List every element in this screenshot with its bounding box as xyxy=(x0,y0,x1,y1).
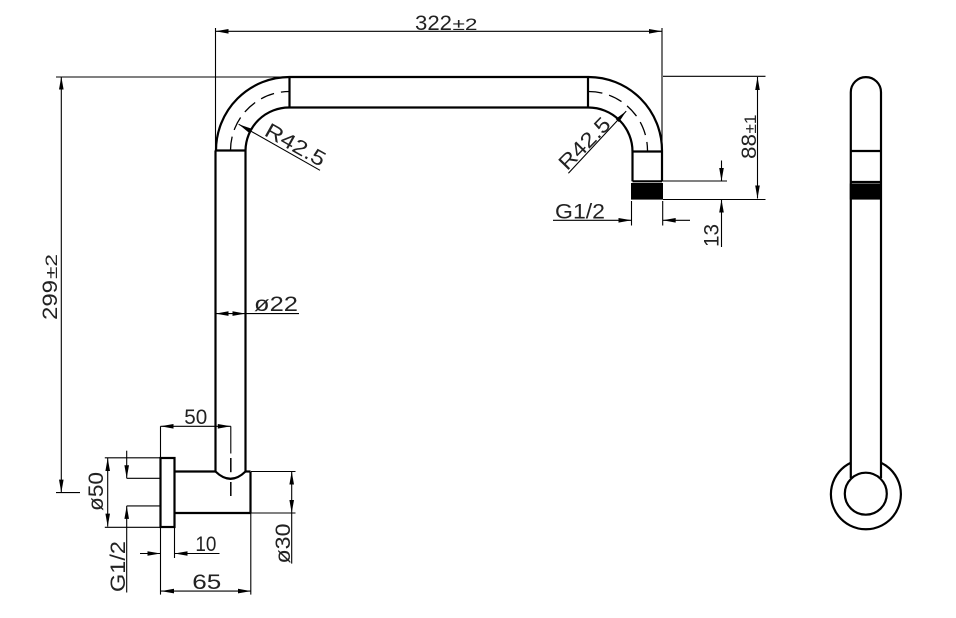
dim 13 upper segment xyxy=(721,161,723,182)
arrow 299 bottom xyxy=(59,480,64,493)
left elbow outer arc xyxy=(216,77,290,151)
arrow G12 right pointing right xyxy=(619,218,632,223)
svg-text:50: 50 xyxy=(184,406,207,429)
svg-text:ø50: ø50 xyxy=(85,472,108,511)
right elbow inner arc xyxy=(589,108,633,152)
right elbow outer arc xyxy=(589,77,663,151)
left elbow inner arc xyxy=(246,107,290,150)
arrow o30 down xyxy=(289,500,294,513)
arrow o50 top xyxy=(105,458,110,471)
dashed centerline arcs in elbows xyxy=(231,92,648,151)
ext line flange right edge down xyxy=(174,527,176,558)
body top edge right part xyxy=(246,470,251,472)
side thread top seam xyxy=(851,181,881,183)
wall flange rectangle xyxy=(161,458,175,527)
arrow 88 top xyxy=(755,77,760,90)
body bottom edge xyxy=(175,512,251,514)
G1/2 right second arrow tail xyxy=(663,219,690,221)
svg-text:322: 322 xyxy=(415,12,452,35)
arrow o50 bottom xyxy=(105,514,110,527)
ext line G1/2 left bottom xyxy=(127,505,161,507)
ext line 13 top xyxy=(662,180,727,182)
dim 322 line xyxy=(216,30,663,32)
arrow 13 down xyxy=(719,168,724,181)
left elbow horizontal seam xyxy=(216,149,246,151)
dim 10 right tail xyxy=(175,553,220,555)
svg-text:65: 65 xyxy=(192,571,221,594)
ext line o30 top xyxy=(251,471,296,473)
centerline dash 2 xyxy=(230,482,232,496)
arrow G12 left down xyxy=(124,465,129,478)
arrow 65 right xyxy=(238,589,251,594)
side flange outer circle (clipped at tube) xyxy=(831,463,901,530)
right elbow vertical seam xyxy=(587,77,589,108)
ext line 88 bottom / thread bottom extension xyxy=(663,199,766,201)
svg-text:G1/2: G1/2 xyxy=(107,541,130,592)
arrow o22 right xyxy=(233,311,246,316)
dim 88 line xyxy=(757,77,759,199)
left vertical pipe right edge xyxy=(244,151,246,472)
pipe top straight section top edge xyxy=(290,76,589,78)
pipe top straight section bottom edge xyxy=(290,106,589,108)
dim o22 line with leader xyxy=(216,313,300,315)
dim 65 line xyxy=(161,590,251,592)
svg-text:±1: ±1 xyxy=(741,115,760,134)
right elbow centerline arc xyxy=(589,92,648,151)
arrow o30 up xyxy=(289,472,294,485)
side tube seam xyxy=(851,150,881,152)
arrow G12 left up xyxy=(124,506,129,519)
right elbow horizontal seam xyxy=(633,150,663,152)
centerline dash 1 xyxy=(230,458,232,472)
front view thread (solid black) xyxy=(631,183,663,200)
side view thread (solid black) xyxy=(850,184,882,200)
arrow 322 right xyxy=(649,29,662,34)
ext line 322 left / pipe left edge extension xyxy=(215,28,217,151)
ext line bottom (299) xyxy=(56,492,80,494)
arrow 10 pointing right xyxy=(148,551,161,556)
dim o30 line xyxy=(291,472,293,564)
R42.5 left leader xyxy=(239,124,320,170)
svg-text:88: 88 xyxy=(738,134,761,159)
arrow 13 up xyxy=(719,200,724,213)
ext line 322 right going down to thread xyxy=(661,28,663,151)
side flange inner circle xyxy=(845,473,887,515)
ext line 65 right / body right edge down xyxy=(250,513,252,595)
arrow 65 left xyxy=(161,589,174,594)
arrow G12 right pointing left xyxy=(663,218,676,223)
svg-text:299: 299 xyxy=(39,280,62,320)
svg-text:10: 10 xyxy=(195,533,216,556)
ext line below thread right xyxy=(662,201,664,226)
pipe-body junction dip curve xyxy=(216,472,246,479)
ext line o50 top xyxy=(105,457,161,459)
ext line o50 bottom xyxy=(105,526,175,528)
svg-text:G1/2: G1/2 xyxy=(555,201,605,224)
arrow 322 left xyxy=(216,29,229,34)
ext line flange left edge down xyxy=(160,527,162,594)
ext line 50 left xyxy=(160,426,162,458)
svg-text:±2: ±2 xyxy=(453,15,478,34)
G1/2 right underline leader xyxy=(553,219,632,221)
ext line 88 top xyxy=(663,75,766,77)
left elbow vertical seam xyxy=(288,77,290,108)
dim 299 line xyxy=(60,77,62,493)
arrow 50 right xyxy=(218,424,231,429)
arrow 50 left xyxy=(161,424,174,429)
svg-text:±2: ±2 xyxy=(42,254,61,279)
pipe centerline dashes at junction xyxy=(230,458,232,496)
left elbow centerline arc xyxy=(231,92,290,151)
ext line G1/2 left top xyxy=(127,477,161,479)
ext line o30 bottom xyxy=(251,512,296,514)
arrow 10 pointing left xyxy=(175,551,188,556)
dim 13 lower segment xyxy=(721,200,723,248)
G1/2 left dim upper segment xyxy=(126,451,128,479)
right short pipe left edge xyxy=(631,152,633,182)
right short pipe right edge xyxy=(661,151,663,182)
ext line 50 right xyxy=(230,426,232,453)
R42.5 right leader xyxy=(568,111,626,173)
arrow 299 top xyxy=(59,77,64,90)
G1/2 left dim lower segment xyxy=(126,506,128,593)
arrow 88 bottom xyxy=(755,186,760,199)
dim 50 line xyxy=(161,425,231,427)
thread top seam xyxy=(633,180,663,182)
left vertical pipe left edge xyxy=(214,151,216,472)
side tube outline with rounded cap xyxy=(851,77,881,478)
svg-text:ø22: ø22 xyxy=(254,293,298,316)
arrow R42.5 left xyxy=(237,122,251,132)
body top edge left part xyxy=(175,470,216,472)
body right edge xyxy=(249,472,251,514)
svg-text:ø30: ø30 xyxy=(272,524,295,564)
ext line below thread left xyxy=(631,201,633,226)
arrow o22 left xyxy=(216,311,229,316)
arrow R42.5 right xyxy=(616,110,628,123)
dim 10 left tail xyxy=(140,553,161,555)
dim o50 line xyxy=(107,458,109,527)
ext line top of pipe (299) xyxy=(56,76,290,78)
svg-text:13: 13 xyxy=(701,224,724,247)
